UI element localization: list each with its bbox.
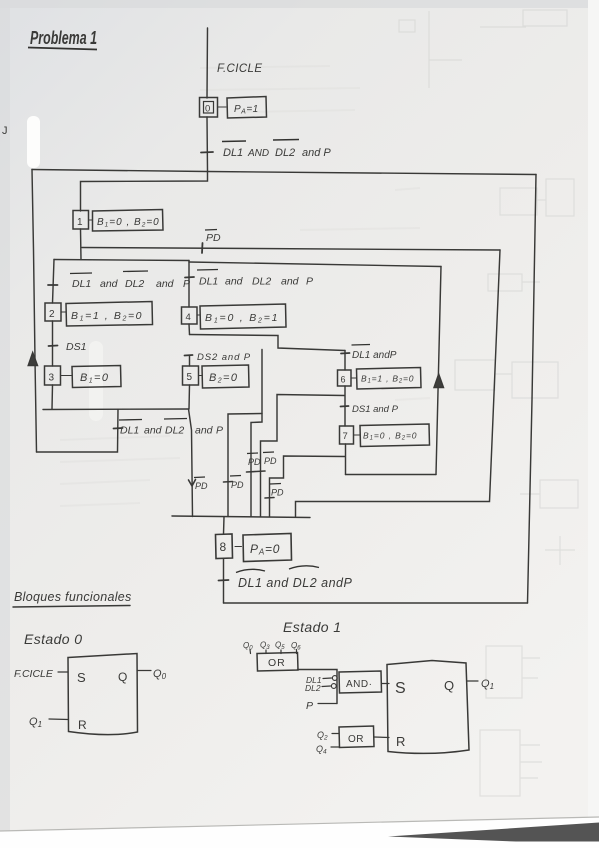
heading Bloques funcionales underline xyxy=(13,606,130,608)
svg-text:PD: PD xyxy=(264,456,277,466)
step 7 box xyxy=(340,426,354,444)
wire step5 to action xyxy=(199,375,202,377)
svg-text:DL1 andP: DL1 andP xyxy=(352,350,397,361)
svg-text:AND: AND xyxy=(247,148,269,159)
svg-text:6: 6 xyxy=(341,375,346,385)
wire Q1 to R xyxy=(49,718,69,721)
white-out marks xyxy=(27,116,40,168)
wire chain A to final convergence xyxy=(189,409,193,517)
wire stem to step 8 xyxy=(223,517,226,534)
wire convergence line D2 (left box bottom) xyxy=(43,408,189,411)
action box B2=0 (step5) xyxy=(202,365,249,388)
wire step8 down xyxy=(223,559,225,604)
wire step8 to action xyxy=(235,546,242,548)
step 0 (initial step, double box) xyxy=(200,98,218,118)
step 3 box xyxy=(45,366,61,385)
wire V0 below step0 xyxy=(206,117,209,171)
wire AND output to S xyxy=(382,683,390,685)
wire step2 to action xyxy=(61,311,66,313)
wire Q2 input xyxy=(332,733,339,735)
flip-flop U3 (Estado 1) box xyxy=(387,661,469,754)
wire divergence line D1 xyxy=(54,260,189,261)
action box PA=0 (step8) xyxy=(243,534,292,562)
wire DL2 inverted input xyxy=(322,685,331,688)
svg-text:OR: OR xyxy=(348,734,364,745)
svg-text:DL1: DL1 xyxy=(120,425,139,437)
step 4 box xyxy=(182,307,198,324)
inverter bubble DL2 xyxy=(331,684,336,689)
svg-text:P: P xyxy=(306,276,313,288)
svg-text:PD: PD xyxy=(206,232,221,244)
svg-text:DL2: DL2 xyxy=(305,683,321,693)
svg-text:S: S xyxy=(395,680,406,697)
OR gate U1 box xyxy=(257,653,298,672)
svg-text:OR: OR xyxy=(268,657,286,669)
wire right branch vertical (steps 4,5) xyxy=(188,261,191,410)
svg-text:and P: and P xyxy=(302,147,331,159)
svg-text:PD: PD xyxy=(248,457,261,467)
wire chain C xyxy=(228,414,262,517)
wire step7 bottom to right feedback xyxy=(346,474,437,476)
svg-text:2: 2 xyxy=(49,309,55,320)
action box B1=0 (step3) xyxy=(72,366,121,388)
wire P input xyxy=(318,703,337,705)
arrow up on left rail xyxy=(28,353,37,366)
wire F.CICLE to S xyxy=(58,671,68,673)
wire V0 to H2 jog to step 1 xyxy=(81,172,208,212)
transition PD tick chain E xyxy=(265,497,274,500)
svg-text:PA=1: PA=1 xyxy=(234,104,259,116)
svg-text:DL2: DL2 xyxy=(252,276,271,288)
wire DL1 inverted input xyxy=(323,677,332,680)
svg-text:DS1: DS1 xyxy=(66,341,86,353)
svg-text:P: P xyxy=(216,425,223,437)
wire step1 down xyxy=(80,229,83,260)
svg-text:and: and xyxy=(100,278,119,290)
svg-text:and: and xyxy=(144,425,163,437)
svg-text:P: P xyxy=(306,700,313,712)
transition PD tick on H3 xyxy=(201,243,204,253)
transition T2 tick xyxy=(48,284,58,286)
OR gate U4 box xyxy=(339,726,374,748)
wire final convergence line xyxy=(172,516,310,518)
svg-text:P: P xyxy=(183,278,190,290)
wire chain E xyxy=(270,456,346,517)
svg-text:and: and xyxy=(195,425,214,437)
svg-text:B2=0: B2=0 xyxy=(209,372,238,385)
svg-text:and: and xyxy=(281,276,300,288)
svg-text:4: 4 xyxy=(186,312,191,323)
svg-text:7: 7 xyxy=(343,431,348,442)
transition PD tick chain B xyxy=(247,471,256,474)
svg-text:DS1 and P: DS1 and P xyxy=(352,404,399,415)
wire V0 top feed xyxy=(206,28,209,98)
svg-text:AND·: AND· xyxy=(346,679,372,690)
wire step3 to action xyxy=(61,375,72,377)
transition T6 tick xyxy=(341,352,350,355)
svg-text:F.CICLE: F.CICLE xyxy=(217,63,262,75)
wire step1 to action xyxy=(89,219,93,221)
svg-text:Estado 1: Estado 1 xyxy=(283,619,341,635)
svg-text:Bloques funcionales: Bloques funcionales xyxy=(14,590,132,604)
svg-text:R: R xyxy=(78,718,87,732)
transition T7 tick xyxy=(341,405,349,408)
wire Q output to Q0 xyxy=(137,670,151,672)
transition T4 tick xyxy=(185,276,194,279)
svg-text:PA=0: PA=0 xyxy=(250,542,280,557)
arrow up on inner feedback rail xyxy=(434,374,444,388)
wire chain D xyxy=(261,395,345,517)
svg-text:Q: Q xyxy=(444,678,454,693)
svg-text:J: J xyxy=(2,125,8,137)
svg-text:and: and xyxy=(156,278,175,290)
svg-text:Problema 1: Problema 1 xyxy=(30,28,97,48)
svg-text:DL2: DL2 xyxy=(165,425,184,437)
wire bottom rail to outer right xyxy=(224,602,528,604)
flip-flop U0 (Estado 0) box xyxy=(68,654,138,735)
action box B1=1,B2=0 (step6) xyxy=(357,368,422,390)
wire step0 to action PA=1 xyxy=(218,106,226,108)
svg-text:R: R xyxy=(396,734,405,749)
wire column 6/7 vertical xyxy=(344,351,347,475)
svg-text:5: 5 xyxy=(187,372,193,383)
svg-text:PD: PD xyxy=(195,481,208,491)
wire H3 skip line to right xyxy=(82,248,500,251)
svg-text:1: 1 xyxy=(77,217,83,228)
wire left branch vertical xyxy=(52,260,54,410)
svg-text:and: and xyxy=(225,276,244,288)
wire divergence line to feedback top xyxy=(189,262,441,267)
svg-text:B1=0: B1=0 xyxy=(80,372,109,385)
svg-text:F.CICLE: F.CICLE xyxy=(14,668,54,680)
svg-text:PD: PD xyxy=(271,488,284,498)
transition PD tick chain C xyxy=(224,481,233,484)
step 1 box xyxy=(73,211,89,230)
wire H1 top return rail xyxy=(32,170,536,175)
transition T0 tick xyxy=(201,151,213,154)
step 8 box xyxy=(216,534,233,559)
wire feedback stub with transition down-left xyxy=(37,410,119,453)
wire V-right outer rail xyxy=(528,175,537,604)
svg-text:PD: PD xyxy=(231,480,244,490)
wire chain B xyxy=(251,350,262,517)
svg-text:DL2: DL2 xyxy=(275,147,295,159)
svg-text:3: 3 xyxy=(49,373,55,384)
svg-text:Estado 0: Estado 0 xyxy=(24,631,82,647)
wire right inner feedback rail xyxy=(436,267,441,475)
step 2 box xyxy=(45,303,61,321)
action box B1=0,B2=1 (step4) xyxy=(200,304,286,329)
wire OR1 output down to AND input bus xyxy=(298,670,338,704)
svg-text:DS2 and P: DS2 and P xyxy=(197,352,251,363)
svg-text:DL1: DL1 xyxy=(223,147,243,159)
action box B1=1,B2=0 (step2) xyxy=(66,302,153,327)
svg-text:DL2: DL2 xyxy=(125,278,144,290)
transition tick on feedback stub xyxy=(114,427,123,430)
step 5 box xyxy=(183,366,199,385)
svg-text:S: S xyxy=(77,670,86,685)
inverter bubble DL1 xyxy=(332,676,337,681)
wire OR2 output to R xyxy=(374,736,389,739)
svg-text:DL1: DL1 xyxy=(72,278,91,290)
action box PA=1 xyxy=(227,97,267,119)
transition PD tick chain D xyxy=(256,470,265,473)
action box B1=0,B2=0 (step7) xyxy=(360,424,430,447)
wire step4 to action xyxy=(197,314,200,316)
wire Q output to Q1 xyxy=(468,680,479,682)
transition PD tick + arrow on chain A xyxy=(189,480,196,487)
wire Q4 input xyxy=(331,746,340,748)
node labels drop ticks (OR1 inputs) xyxy=(250,650,297,654)
step 6 box xyxy=(338,370,352,386)
transition DS1 tick xyxy=(49,345,58,348)
wire step7 to action xyxy=(354,434,360,436)
wire R2 chain: right drop, long left run, drop to convergence xyxy=(296,250,501,517)
transition DS2 tick xyxy=(185,354,193,357)
svg-text:8: 8 xyxy=(220,540,227,554)
svg-text:DL1 and DL2 andP: DL1 and DL2 andP xyxy=(238,576,352,590)
wire V-left feedback rail xyxy=(32,170,37,453)
svg-text:DL1: DL1 xyxy=(199,276,218,288)
AND gate U2 box xyxy=(339,671,382,693)
wire step6 to action xyxy=(351,377,356,379)
transition T8 tick xyxy=(219,579,229,582)
page bottom edge xyxy=(0,817,599,848)
action box B1=0,B2=0 (step1) xyxy=(93,210,164,232)
wire link step4 to column 6/7 xyxy=(190,335,346,351)
svg-text:Q: Q xyxy=(118,670,127,684)
svg-text:0: 0 xyxy=(205,104,210,115)
